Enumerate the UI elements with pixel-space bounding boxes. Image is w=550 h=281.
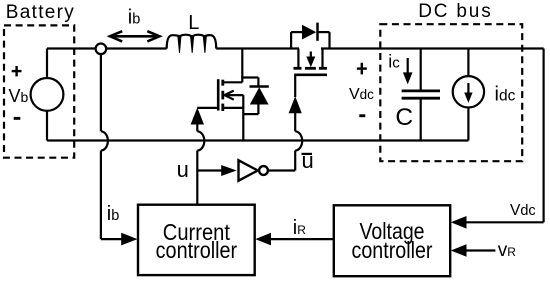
- capacitor C bottom lead: [420, 100, 422, 141]
- current source idc leads: [467, 49, 469, 77]
- wire iR between controllers: [271, 238, 334, 240]
- diode D2 (body diode of Q2): [290, 32, 292, 48]
- Q2 body arrow: [310, 52, 312, 59]
- wire NOT output to u-bar corner: [268, 169, 295, 171]
- Current controller box: [138, 205, 255, 275]
- svg-text:u: u: [302, 148, 314, 173]
- svg-text:ic: ic: [388, 52, 400, 72]
- Q2 gate lead: [294, 75, 296, 97]
- Q1 gate lead: [197, 107, 218, 109]
- ib direction double arrow: [110, 31, 160, 41]
- wire top rail right: [321, 47, 544, 49]
- wire u branch to NOT gate: [197, 169, 222, 171]
- hop over bottom rail (u line): [197, 131, 204, 150]
- label + (battery): [12, 66, 22, 76]
- Q2 gate bar: [294, 74, 327, 77]
- svg-text:Battery: Battery: [6, 2, 75, 23]
- transistor Q1 drain wire: [241, 49, 243, 83]
- wire top rail left: [47, 47, 167, 49]
- wire u down to current controller: [196, 151, 198, 205]
- current source idc: [453, 76, 484, 107]
- wire vR input: [466, 249, 495, 251]
- hop over bottom rail (left): [101, 131, 108, 150]
- label + (bus): [357, 63, 367, 75]
- voltage source Vb: [31, 78, 64, 111]
- capacitor C top lead: [420, 49, 422, 91]
- DC bus dashed box: [380, 24, 522, 161]
- wire ib into current controller: [101, 238, 122, 240]
- svg-text:C: C: [395, 104, 413, 131]
- svg-text:idc: idc: [495, 84, 516, 106]
- wire node to hop: [100, 54, 102, 131]
- svg-text:Vdc: Vdc: [510, 202, 536, 219]
- diode D1 (body diode of Q1): [257, 78, 259, 88]
- wire Q1 source to diode bottom: [243, 113, 258, 115]
- svg-text:u: u: [177, 157, 189, 182]
- wire battery positive lead: [46, 49, 48, 79]
- wire hop down to ib corner: [100, 151, 102, 240]
- wire Vdc feedback horizontal: [466, 221, 544, 223]
- capacitor C plates: [402, 90, 440, 93]
- Q1 source vertical to bottom rail: [242, 95, 244, 140]
- svg-text:Vdc: Vdc: [349, 86, 374, 103]
- wire Q1 drain to diode top: [241, 76, 258, 78]
- wire top rail mid: [216, 47, 299, 49]
- svg-text:Vb: Vb: [9, 86, 29, 106]
- node junction circle: [96, 44, 107, 55]
- NOT gate (inverter): [239, 160, 258, 180]
- hop over bottom rail (u-bar line): [295, 131, 302, 150]
- transistor Q2 left (drain) stub: [297, 49, 299, 69]
- u-bar gate arrow into Q2: [289, 96, 302, 113]
- wire u-bar down to NOT output: [294, 151, 296, 171]
- svg-text:controller: controller: [352, 237, 433, 263]
- Q2 right (source) stub: [321, 49, 323, 69]
- inductor L: [167, 35, 217, 49]
- Q2 channel segments: [294, 67, 327, 70]
- Q1 body stub with arrow: [225, 94, 243, 96]
- Q1 gate bar: [217, 79, 220, 110]
- label - (bus): [359, 114, 365, 117]
- Q1 drain stub: [223, 81, 243, 83]
- Voltage controller box: [334, 205, 450, 276]
- label - (battery): [14, 117, 21, 120]
- wire bottom rail: [47, 139, 468, 141]
- svg-text:L: L: [188, 12, 199, 34]
- ic arrow: [407, 58, 409, 75]
- battery dashed box: [4, 25, 74, 157]
- svg-text:controller: controller: [156, 237, 238, 263]
- Q1 channel segments: [221, 80, 224, 111]
- wire battery negative lead: [46, 111, 48, 141]
- u gate arrow into Q1: [191, 108, 204, 125]
- wire Vdc feedback right vertical: [542, 49, 544, 223]
- Q1 source stub: [223, 107, 244, 109]
